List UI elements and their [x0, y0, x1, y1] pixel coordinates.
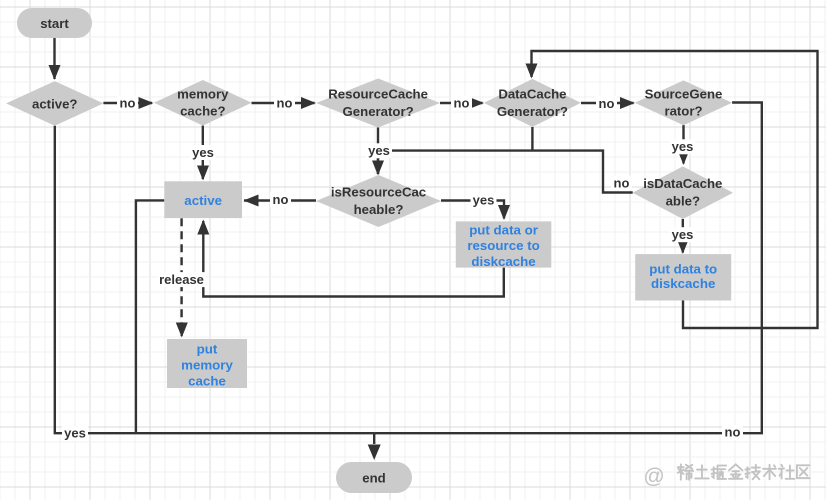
- svg-text:yes: yes: [672, 227, 694, 242]
- svg-text:end: end: [362, 471, 385, 486]
- svg-text:Generator?: Generator?: [497, 104, 568, 119]
- svg-text:active: active: [184, 193, 222, 208]
- svg-text:DataCache: DataCache: [498, 86, 566, 101]
- svg-text:able?: able?: [666, 194, 700, 209]
- svg-text:diskcache: diskcache: [471, 254, 535, 269]
- svg-text:diskcache: diskcache: [651, 276, 715, 291]
- svg-text:@: @: [643, 465, 664, 488]
- svg-text:no: no: [725, 425, 741, 440]
- svg-text:active?: active?: [32, 96, 77, 111]
- svg-text:no: no: [120, 95, 136, 110]
- svg-text:release: release: [159, 272, 204, 287]
- svg-text:no: no: [454, 95, 470, 110]
- svg-text:memory: memory: [177, 86, 229, 101]
- svg-text:yes: yes: [64, 426, 86, 441]
- svg-text:no: no: [599, 96, 615, 111]
- svg-text:ResourceCache: ResourceCache: [328, 87, 428, 102]
- svg-text:yes: yes: [672, 139, 694, 154]
- svg-text:SourceGene: SourceGene: [645, 86, 723, 101]
- svg-text:put data or: put data or: [469, 222, 538, 237]
- svg-text:memory: memory: [181, 358, 233, 373]
- svg-text:heable?: heable?: [354, 202, 404, 217]
- svg-text:no: no: [277, 95, 293, 110]
- svg-text:no: no: [273, 192, 289, 207]
- svg-text:yes: yes: [473, 193, 495, 208]
- svg-text:cache: cache: [188, 374, 226, 389]
- svg-text:resource to: resource to: [467, 238, 539, 253]
- svg-text:cache?: cache?: [180, 104, 225, 119]
- svg-text:isResourceCac: isResourceCac: [331, 185, 426, 200]
- svg-text:put: put: [197, 342, 218, 357]
- svg-text:Generator?: Generator?: [343, 104, 414, 119]
- svg-text:no: no: [614, 175, 630, 190]
- svg-text:put data to: put data to: [649, 261, 717, 276]
- svg-text:isDataCache: isDataCache: [643, 176, 722, 191]
- svg-text:yes: yes: [368, 143, 390, 158]
- svg-text:rator?: rator?: [664, 104, 702, 119]
- svg-text:start: start: [40, 16, 69, 31]
- svg-text:yes: yes: [192, 145, 214, 160]
